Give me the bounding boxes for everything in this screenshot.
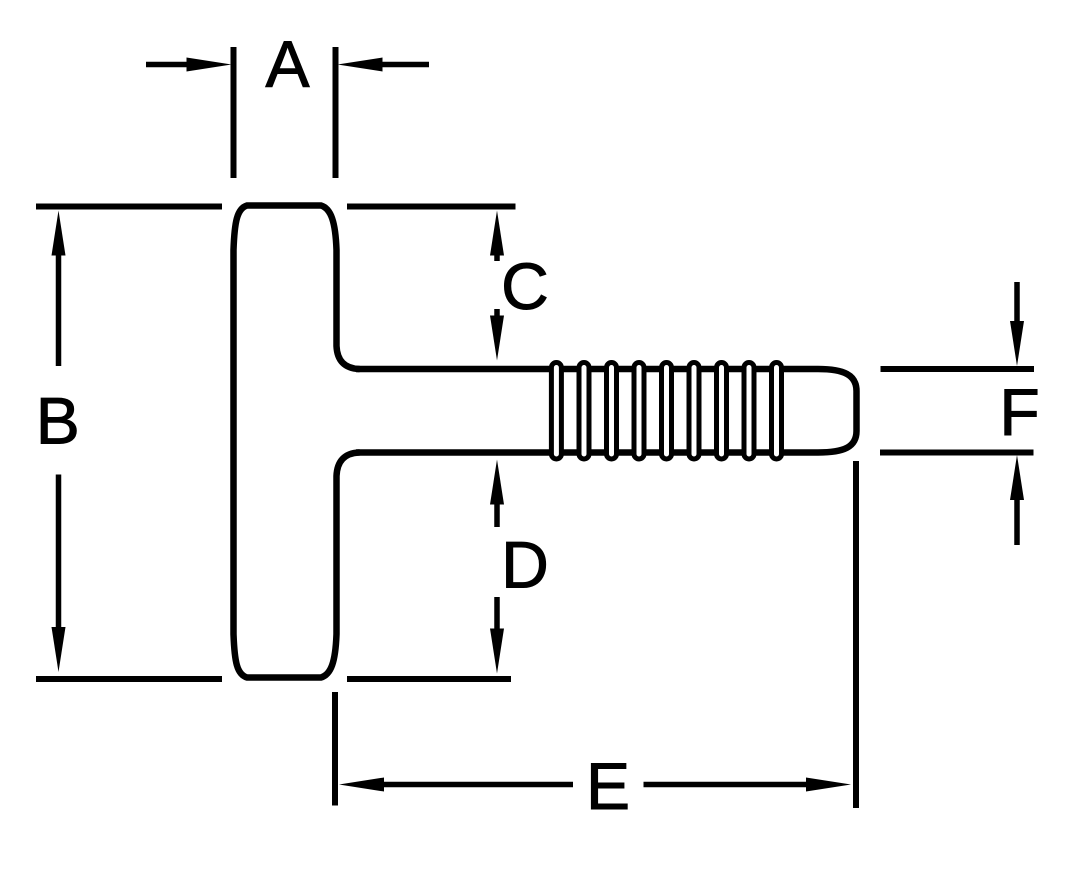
dimension F upper arrow: [1010, 282, 1024, 366]
extension line F bottom: [880, 450, 1034, 456]
svg-text:F: F: [999, 375, 1039, 449]
dimension A right arrow: [338, 58, 430, 72]
svg-text:D: D: [501, 527, 549, 601]
T-handle body outline: [234, 206, 360, 678]
extension line bottom (B bottom / D end) left segment: [36, 676, 222, 682]
thread ring 9: [772, 363, 782, 460]
thread ring 5: [662, 363, 672, 460]
svg-text:A: A: [265, 27, 309, 101]
thread ring 7: [717, 363, 727, 460]
svg-text:B: B: [36, 383, 80, 457]
extension line F top: [881, 366, 1035, 372]
extension line top right segment: [347, 204, 516, 210]
dimension F lower arrow: [1010, 455, 1024, 545]
extension line A right: [333, 47, 339, 178]
extension line bottom right segment: [347, 676, 511, 682]
dimension C upper arrow: [490, 211, 504, 262]
dimension C lower arrow: [490, 309, 504, 361]
dimension E left arrow: [339, 778, 573, 792]
dimension B upper arrow: [52, 211, 66, 367]
dimension E right arrow: [644, 778, 852, 792]
thread ring 6: [689, 363, 699, 460]
extension line E left: [332, 692, 338, 806]
thread ring 4: [634, 363, 644, 460]
threaded shaft outline with rounded tip: [356, 369, 857, 453]
dimension B lower arrow: [52, 475, 66, 673]
dimension D upper arrow: [490, 460, 504, 528]
extension line E right: [853, 461, 859, 808]
thread ring 2: [579, 363, 589, 460]
thread ring 8: [744, 363, 754, 460]
dimension A left arrow: [146, 58, 232, 72]
thread ring 1: [551, 363, 561, 460]
extension line A left: [231, 47, 237, 178]
extension line top (B top / C start) left segment: [36, 204, 222, 210]
dimension D lower arrow: [490, 597, 504, 674]
svg-text:E: E: [586, 749, 630, 823]
svg-text:C: C: [501, 249, 549, 323]
thread ring 3: [607, 363, 617, 460]
